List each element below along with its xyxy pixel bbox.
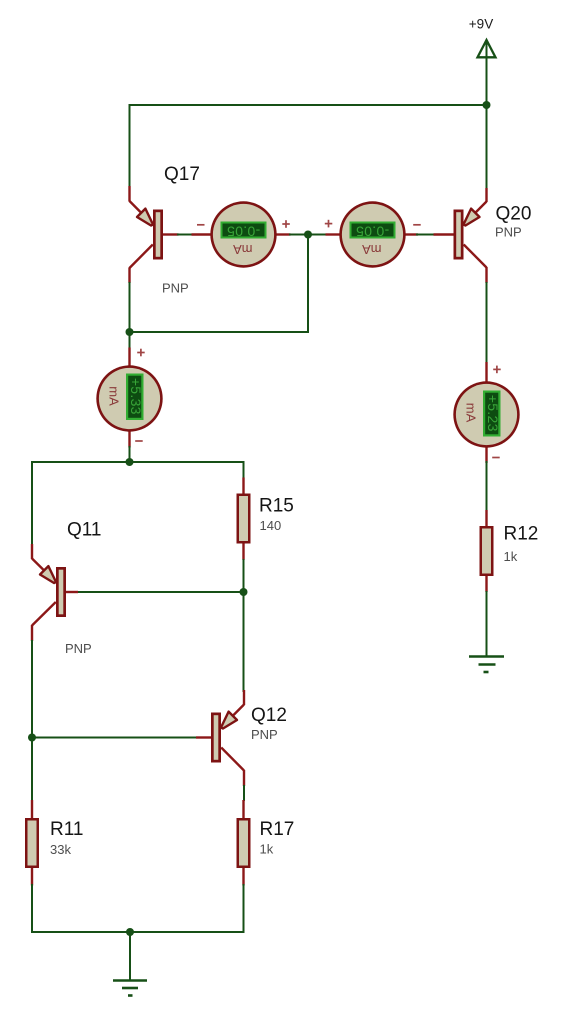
wire R11 bottom [31, 884, 33, 933]
svg-text:mA: mA [233, 242, 253, 257]
svg-text:1k: 1k [504, 549, 518, 564]
svg-text:PNP: PNP [65, 641, 92, 656]
ammeter AM2 [325, 201, 421, 267]
wire mid rail [32, 461, 244, 463]
svg-text:PNP: PNP [162, 281, 189, 296]
svg-text:Q12: Q12 [251, 705, 287, 726]
resistor R15 [237, 478, 251, 561]
wire Q11 base [66, 591, 244, 593]
ammeter AM1 [192, 201, 291, 267]
node ground junction [126, 928, 134, 936]
node top-right junction [483, 101, 491, 109]
ammeter AM3 [96, 348, 162, 448]
svg-text:mA: mA [464, 403, 479, 423]
wire R15 bottom [243, 559, 245, 592]
svg-text:Q11: Q11 [67, 520, 102, 541]
svg-text:Q20: Q20 [496, 204, 532, 225]
wire Q12 emitter up [243, 592, 245, 692]
resistor R12 [480, 510, 494, 592]
wire ground stem [129, 932, 131, 980]
svg-text:33k: 33k [50, 842, 71, 857]
svg-text:PNP: PNP [251, 727, 278, 742]
node AM3 top junction [126, 328, 134, 336]
resistor R11 [25, 800, 39, 886]
svg-text:R17: R17 [260, 819, 295, 840]
transistor Q11 [32, 544, 78, 641]
svg-text:R11: R11 [50, 819, 83, 840]
wire Q20 collector down [486, 282, 488, 364]
wire top rail [130, 104, 487, 106]
node meters junction [304, 231, 312, 239]
svg-text:140: 140 [260, 518, 282, 533]
svg-text:PNP: PNP [495, 225, 522, 240]
svg-text:1k: 1k [260, 842, 274, 857]
wire Q12 base [32, 737, 197, 739]
wire AM1 to junction [289, 234, 308, 236]
node Q12 base junction [28, 734, 36, 742]
svg-text:-0.05: -0.05 [356, 223, 389, 239]
wire Q17 base to AM1 [177, 234, 193, 236]
power +9V [469, 17, 496, 106]
wire Q12 collector down [243, 785, 245, 801]
wire R12 to ground [486, 591, 488, 656]
node base junction [240, 588, 248, 596]
wire AM4 to R12 [486, 461, 488, 511]
svg-text:+9V: +9V [469, 17, 493, 32]
wire Q20 emitter drop [486, 105, 488, 189]
wire AM2 to Q20 base [416, 234, 435, 236]
transistor Q20 [434, 188, 487, 283]
wire Q17 emitter drop [129, 104, 131, 187]
wire R17 bottom [243, 884, 245, 933]
wire left rail upper [31, 461, 33, 545]
svg-text:Q17: Q17 [164, 164, 200, 185]
ground left [113, 981, 147, 996]
resistor R17 [237, 800, 251, 886]
wire Q17 collector down [129, 282, 131, 349]
svg-text:mA: mA [107, 386, 122, 406]
ammeter AM4 [453, 362, 519, 463]
wire AM3 to mid rail [129, 446, 131, 462]
transistor Q17 [130, 186, 179, 283]
ground right [469, 657, 504, 673]
svg-text:-0.05: -0.05 [227, 223, 260, 239]
wire R15 top [243, 461, 245, 479]
wire left rail lower [31, 640, 33, 801]
svg-text:R15: R15 [259, 496, 294, 517]
node mid rail junction [126, 458, 134, 466]
svg-text:+5.33: +5.33 [128, 378, 144, 415]
svg-text:R12: R12 [504, 524, 539, 545]
wire bottom rail [32, 931, 244, 933]
wire junction to AM2 [308, 234, 327, 236]
wire junction down to corner [130, 235, 309, 333]
transistor Q12 [196, 690, 244, 786]
svg-text:mA: mA [362, 242, 382, 257]
svg-text:+5.23: +5.23 [485, 395, 501, 432]
